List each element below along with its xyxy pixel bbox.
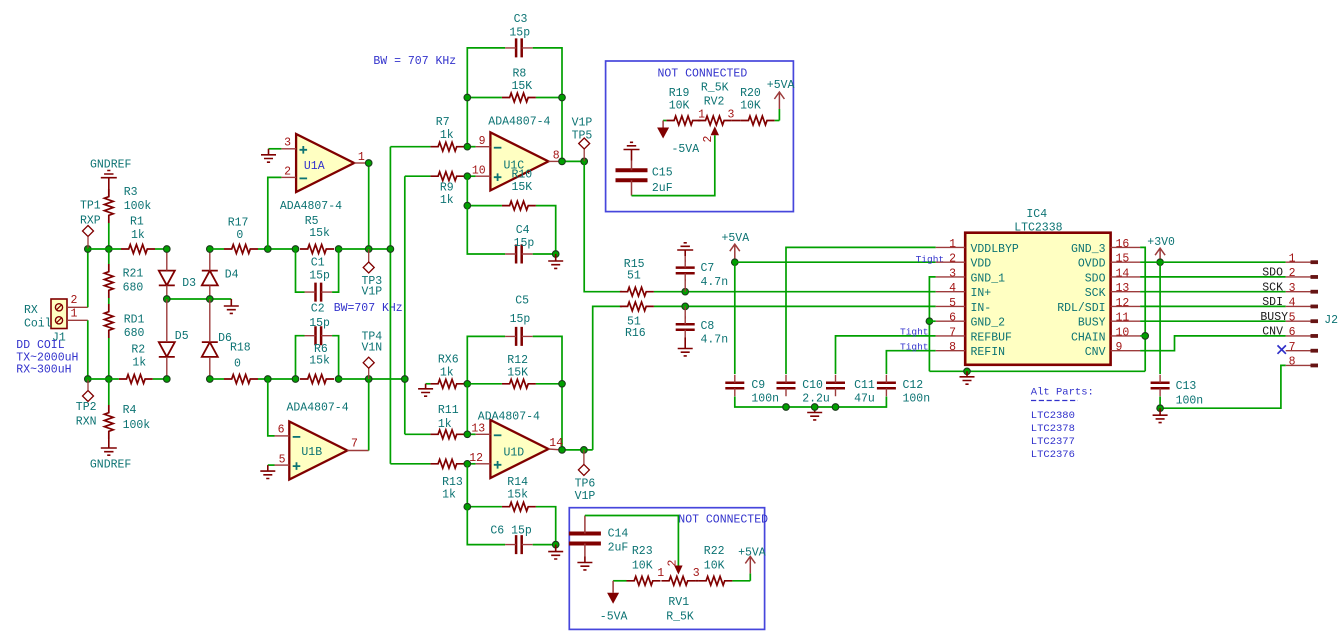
capacitor C15 [616,170,648,180]
node +3V0 junction [1157,259,1164,266]
node U1C non-inverting input [464,173,471,180]
wire bottom rail J1 to R2 [88,378,119,380]
wire RV2 to R20 [732,120,741,122]
svg-text:7: 7 [1289,341,1296,354]
svg-text:BUSY: BUSY [1260,311,1288,324]
node C6/R14 right [552,541,559,548]
wire SDI row [1140,305,1286,307]
resistor R4 [104,405,113,439]
J2 pin 7 [1286,350,1311,352]
svg-text:BW = 707 KHz: BW = 707 KHz [373,55,456,68]
wire R3 column rails [108,249,110,264]
svg-text:Tight: Tight [900,341,929,352]
IC4 pin 13 SCK [1111,291,1141,293]
node R18/U1B- junction [265,376,272,383]
op-amp U1B [289,422,347,480]
ground C4 [548,254,563,268]
wire C4 right leg [533,253,556,255]
svg-text:LTC2376: LTC2376 [1031,449,1075,461]
node U1C output [559,158,566,165]
svg-text:2: 2 [284,166,291,179]
wire bottom rail R18 to node [258,378,296,380]
wire R14 right leg [536,507,556,545]
node top rail D3 [164,246,171,253]
resistor R2 [119,375,153,384]
wire C1 right leg [332,249,339,292]
ground decoupling rail [807,407,822,420]
svg-text:RV1: RV1 [668,596,689,609]
svg-text:2: 2 [1289,267,1296,280]
svg-text:4: 4 [1289,297,1296,310]
U1A pin 2 stub [281,176,296,178]
svg-text:R_5K: R_5K [666,611,694,624]
wire C1 left leg [296,249,305,292]
svg-text:LTC2378: LTC2378 [1031,423,1075,435]
svg-text:Tight: Tight [900,327,929,338]
U1D pin 12 stub [476,463,491,465]
svg-text:+5VA: +5VA [767,79,795,92]
wire U1C output to TP5 corner [562,160,584,162]
wire R8 left [467,97,502,99]
svg-text:Tight: Tight [916,254,945,265]
wire bottom rail R6 to node B [339,378,405,380]
svg-text:3: 3 [1289,282,1296,295]
svg-text:SCK: SCK [1085,287,1106,300]
svg-text:R1: R1 [130,216,144,229]
wire +5VA down to C9 [734,262,736,374]
svg-text:3: 3 [693,567,700,580]
resistor R22 [698,576,732,585]
svg-text:1k: 1k [440,129,454,142]
svg-text:11: 11 [1116,312,1130,325]
svg-text:C9: C9 [751,379,765,392]
svg-text:C15: C15 [652,167,673,180]
wire C7 bottom [684,279,686,292]
svg-text:4.7n: 4.7n [701,334,729,347]
U1C output pin 8 stub [548,160,562,162]
wire +3V0 down to C13 [1159,262,1161,374]
wire BUSY row [1140,320,1286,322]
node D4/D6 junction [207,296,214,303]
svg-text:C5: C5 [515,295,529,308]
svg-text:15p: 15p [309,270,330,283]
wire C5 right leg [533,336,562,450]
node +5VA junction [732,259,739,266]
node C4/R10 right [552,251,559,258]
wire C2 right leg [332,336,339,379]
svg-text:C14: C14 [608,528,629,541]
svg-text:C12: C12 [903,379,924,392]
wire C13 bottom to J2 pin8 [1160,365,1286,408]
capacitor C1 [316,283,322,302]
power -5VA top box [663,120,666,122]
svg-text:R2: R2 [131,344,145,357]
svg-text:1k: 1k [132,357,146,370]
ground C8 [678,338,693,356]
svg-text:U1A: U1A [304,160,325,173]
node C8 junction [682,303,689,310]
wire CNV row with jog [1140,336,1286,351]
node R5 right [335,246,342,253]
wire U1A output to rail [368,163,370,249]
wire REFBUF pin7 to C11 [836,336,936,374]
svg-text:1k: 1k [131,229,145,242]
svg-text:IN-: IN- [971,302,992,315]
svg-text:C6 15p: C6 15p [490,525,532,538]
svg-text:-5VA: -5VA [600,611,628,624]
node vertical A on V1P rail [387,246,394,253]
graphic box NOT CONNECTED bottom [569,508,764,630]
wire REFIN pin8 to C12 [886,351,935,374]
wire SCK row [1140,291,1286,293]
svg-text:R3: R3 [124,186,138,199]
wire J1 pin1 to bottom rail [87,320,89,379]
wire R13 left to vertical A [390,463,430,465]
svg-text:R11: R11 [438,404,459,417]
node C11 gnd [832,404,839,411]
svg-text:D4: D4 [225,269,239,282]
power +5VA top box [775,120,780,122]
svg-text:ADA4807-4: ADA4807-4 [488,116,550,129]
svg-text:2: 2 [71,294,78,307]
node C10 gnd [783,404,790,411]
IC4 pin 10 CHAIN [1111,335,1141,337]
IC4 pin 8 REFIN [936,350,966,352]
node C7 junction [682,288,689,295]
svg-text:6: 6 [1289,326,1296,339]
svg-text:0: 0 [234,358,241,371]
svg-text:4: 4 [949,282,956,295]
svg-text:1: 1 [1289,252,1296,265]
U1C pin 10 stub [476,175,491,177]
IC4 pin 16 GND_3 [1111,246,1141,248]
power +3V0 [1155,248,1165,262]
test point TP1 [83,226,94,237]
IC4 pin 1 VDDLBYP [936,246,966,248]
node D3/D5 junction [164,296,171,303]
diode D5 [159,342,175,357]
svg-text:OVDD: OVDD [1078,258,1106,271]
op-amp U1A [296,134,354,192]
svg-text:12: 12 [1116,297,1130,310]
wire +5VA to VDD pin2 [735,261,936,263]
svg-text:ADA4807-4: ADA4807-4 [478,410,540,423]
wire R12 left [467,383,502,385]
resistor R19 [666,116,700,125]
svg-text:680: 680 [123,282,144,295]
node TP5 junction [581,158,588,165]
svg-text:10: 10 [1116,326,1130,339]
svg-text:1: 1 [358,151,365,164]
J2 pin 3 [1286,291,1311,293]
U1B output pin 7 stub [347,450,369,452]
ground under IC [960,371,975,384]
wire RV1 to R22 [695,580,698,582]
capacitor C4 [516,245,522,264]
svg-text:6: 6 [949,312,956,325]
svg-text:CNV: CNV [1085,346,1106,359]
svg-text:12: 12 [469,452,483,465]
resistor R23 [627,576,661,585]
J2 pin 4 [1286,305,1311,307]
wire D3 bottom lead [166,285,168,299]
power -5VA bottom box [613,580,626,582]
svg-text:15k: 15k [309,355,330,368]
svg-text:1k: 1k [440,367,454,380]
capacitor C9 [725,383,744,389]
wire C5 left leg [467,336,505,383]
IC U4 body LTC2338 [965,233,1110,365]
wire top rail R1 to D3 [155,248,167,250]
svg-text:R14: R14 [507,476,528,489]
svg-text:R9: R9 [440,182,454,195]
svg-text:GNDREF: GNDREF [90,159,132,172]
svg-text:RX: RX [24,304,38,317]
capacitor C5 [516,327,522,346]
wire ground bus under IC [929,370,1145,372]
wire bottom rail R2 to D5 [153,378,167,380]
wire R10 left leg [467,176,502,205]
svg-text:1: 1 [698,109,705,122]
wire D6 bottom lead [209,357,211,379]
svg-text:BUSY: BUSY [1078,317,1106,330]
svg-text:+3V0: +3V0 [1147,236,1175,249]
svg-text:1: 1 [657,567,664,580]
ground reference above C15 [624,142,640,160]
wire U1C output down to R15 [584,161,622,291]
capacitor C10 [777,383,796,389]
ground U1B pin5 [268,464,275,466]
svg-text:R_5K: R_5K [701,82,729,95]
resistor R3 [104,189,113,223]
wire R13 right to U1D pin12 [464,463,475,465]
wire GND_3 pin16 down to CHAIN [1140,247,1145,371]
svg-text:RDL/SDI: RDL/SDI [1057,302,1105,315]
svg-text:8: 8 [1289,356,1296,369]
svg-text:SCK: SCK [1262,281,1283,294]
svg-text:7: 7 [949,326,956,339]
node R14/C6 left [464,503,471,510]
svg-text:+5VA: +5VA [722,232,750,245]
wire R10 right leg [536,206,556,254]
ground U1A pin3 [269,148,282,150]
wire R14 left leg [467,464,502,507]
ground reference above C7 [677,243,693,256]
ground mid diode node [224,299,239,313]
svg-text:16: 16 [1116,238,1130,251]
wire D5 top lead [166,299,168,342]
svg-text:R8: R8 [513,68,527,81]
svg-text:15k: 15k [507,489,528,502]
wire C8 top [684,306,686,318]
svg-text:2uF: 2uF [608,542,629,555]
node R2/R4 junction [106,376,113,383]
svg-text:CHAIN: CHAIN [1071,331,1106,344]
wire R7 right to U1C pin9 [464,146,475,148]
svg-text:C3: C3 [514,13,528,26]
resistor R10 [502,201,536,210]
node R6 right [335,376,342,383]
svg-text:VDDLBYP: VDDLBYP [971,243,1019,256]
resistor R6 [300,375,334,384]
svg-text:15: 15 [1116,253,1130,266]
svg-text:10K: 10K [740,100,761,113]
svg-text:1: 1 [949,238,956,251]
svg-text:TP6: TP6 [575,478,596,491]
test point TP2 [83,391,94,402]
GNDREF power symbol top [101,171,117,197]
svg-text:-5VA: -5VA [672,143,700,156]
svg-text:R21: R21 [123,268,144,281]
capacitor C2 [316,326,322,345]
svg-text:BW=707 KHz: BW=707 KHz [334,302,403,315]
node RX6/R12/C5 [464,381,471,388]
wire C4 left leg [467,206,505,254]
node R6 left [292,376,299,383]
wire top rail D4 to R17 [210,248,224,250]
svg-text:15K: 15K [512,80,533,93]
svg-text:NOT CONNECTED: NOT CONNECTED [658,68,748,81]
svg-text:9: 9 [479,135,486,148]
svg-text:R4: R4 [123,404,137,417]
wire U1A pin2 to rail node [268,177,282,249]
node U1C inverting input [464,143,471,150]
resistor R13 [430,459,464,468]
svg-text:RX6: RX6 [438,354,459,367]
capacitor C6 [516,535,522,554]
U1B pin 6 stub [275,435,290,437]
wire D5 bottom lead [166,357,168,379]
node R17/U1A- junction [265,246,272,253]
svg-text:15K: 15K [512,181,533,194]
svg-text:NOT CONNECTED: NOT CONNECTED [678,514,768,527]
U1A output pin 1 stub [354,162,369,164]
wire U1D output up to R16 [593,306,622,450]
ground C14 [577,557,592,570]
ground RX6 left [426,383,431,385]
svg-text:R22: R22 [704,545,725,558]
svg-text:D5: D5 [175,330,189,343]
svg-text:Coil: Coil [24,318,52,331]
wire R11 right to U1D pin13 [464,433,475,435]
svg-text:2: 2 [667,560,680,567]
wire U1B pin6 to rail node [268,379,275,436]
IC4 pin 12 RDL/SDI [1111,305,1141,307]
resistor R11 [430,430,464,439]
node TP3 junction [365,246,372,253]
svg-text:DD COIL: DD COIL [16,339,64,352]
resistor R20 [741,116,775,125]
svg-text:TP5: TP5 [572,129,593,142]
IC4 pin 9 CNV [1111,350,1141,352]
wire U1D output right [562,449,593,451]
GNDREF power symbol bottom [101,439,117,455]
wire RX6 right [464,383,469,385]
wire D6 top lead [209,299,211,342]
svg-text:C1: C1 [311,257,325,270]
node RXN junction [85,376,92,383]
resistor R1 [121,245,155,254]
svg-text:ADA4807-4: ADA4807-4 [287,402,349,415]
svg-text:RXN: RXN [76,416,97,429]
wire C2 left leg [296,336,305,379]
svg-text:RD1: RD1 [124,314,145,327]
svg-text:0: 0 [236,229,243,242]
svg-text:LTC2377: LTC2377 [1031,436,1075,448]
svg-text:1: 1 [71,308,78,321]
resistor R14 [502,502,536,511]
node TP6 junction [581,447,588,454]
IC4 pin 15 OVDD [1111,261,1141,263]
node R12/C5 right [559,381,566,388]
wire R3 to rail [108,223,110,249]
svg-text:100n: 100n [903,393,931,406]
wire diode mid row [167,298,232,300]
wire R9 left to vertical B [405,175,431,177]
svg-text:2uF: 2uF [652,182,673,195]
svg-text:3: 3 [949,267,956,280]
svg-text:R16: R16 [625,327,646,340]
wire D3 top lead [166,249,168,271]
node gnd stem [811,404,818,411]
svg-text:R20: R20 [740,87,761,100]
svg-text:D3: D3 [182,277,196,290]
svg-text:5: 5 [949,297,956,310]
svg-text:15p: 15p [514,237,535,250]
node U1D output [559,447,566,454]
svg-text:REFIN: REFIN [971,346,1006,359]
resistor RX6 [430,379,464,388]
J2 pin 2 [1286,276,1311,278]
svg-text:3: 3 [284,137,291,150]
IC4 pin 14 SDO [1111,276,1141,278]
U1D pin 13 stub [476,433,491,435]
capacitor C12 [877,383,896,389]
svg-text:IC4: IC4 [1026,208,1047,221]
IC4 pin 3 GND_1 [936,276,966,278]
resistor R16 [620,302,654,311]
svg-text:CNV: CNV [1262,326,1283,339]
capacitor C13 [1151,383,1170,389]
wire C3 right leg [533,48,562,161]
svg-text:TP1: TP1 [80,200,101,213]
IC4 pin 5 IN- [936,305,966,307]
svg-text:V1P: V1P [362,286,383,299]
node U1D inverting input [464,431,471,438]
wire R7 left to vertical A [390,146,430,148]
IC4 pin 2 VDD [936,261,966,263]
wire V1P to R7 (vertical A) [389,147,391,464]
wire node to U1D pin13 [466,384,468,435]
node TP4 junction [365,376,372,383]
svg-text:C11: C11 [854,379,875,392]
IC4 pin 6 GND_2 [936,320,966,322]
svg-text:15p: 15p [509,27,530,40]
wire OVDD row to J2 pin1 [1140,261,1286,263]
capacitor C3 [516,38,522,57]
wire R9 right to U1C pin10 [464,175,475,177]
svg-text:15K: 15K [507,367,528,380]
diode D4 [202,271,218,286]
potentiometer RV2 [698,116,732,125]
op-amp U1C [490,132,548,190]
svg-text:1k: 1k [440,194,454,207]
node U1A output [365,160,372,167]
wire GND_2 pin6 [929,320,935,322]
node RXP junction [85,246,92,253]
svg-text:GND_1: GND_1 [971,272,1006,285]
svg-text:Alt Parts:: Alt Parts: [1031,387,1094,399]
